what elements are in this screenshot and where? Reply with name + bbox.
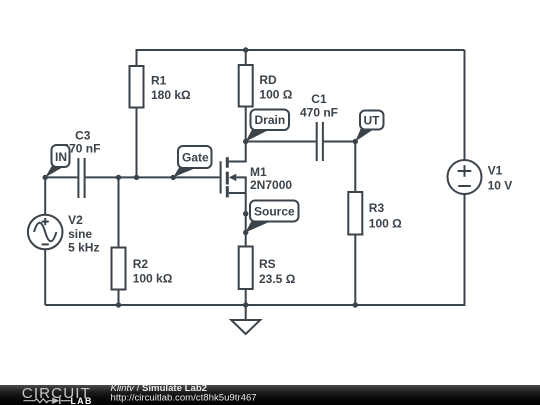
wire V1 bottom to ground rail [464,194,466,306]
svg-text:R1: R1 [151,73,167,87]
wire V1 branch top [464,50,466,160]
wire R3 bottom stub [354,235,356,306]
svg-text:RD: RD [259,73,277,87]
node IN flag [45,145,69,177]
wire M1 source down to RS [245,193,247,247]
node UT flag [355,111,383,142]
resistor RS [239,247,253,290]
svg-text:IN: IN [55,150,67,164]
wire R1 bottom to gate row [136,108,138,178]
svg-text:RS: RS [259,257,276,271]
svg-text:470 nF: 470 nF [300,105,338,119]
svg-text:http://circuitlab.com/ct8hk5u9: http://circuitlab.com/ct8hk5u9tr467 [111,392,257,403]
voltage source V2 [28,215,63,250]
svg-text:Drain: Drain [255,113,286,127]
junction R3 bottom rail [353,302,358,307]
capacitor C3 [78,158,84,198]
wire V2 top to IN node [44,177,46,214]
svg-text:C3: C3 [75,128,91,142]
svg-text:C1: C1 [311,92,327,106]
label C1 value [300,92,338,119]
wire C3 to gate [86,176,220,178]
wire IN node to C3 [45,176,77,178]
wire V2 bottom to rail [44,249,46,305]
junction Gate node [171,175,176,180]
node Source flag [245,201,298,233]
wire R3 top stub [354,142,356,193]
wire C1 to UT node [324,141,355,143]
junction top rail RD [243,47,248,52]
wire RD bottom to drain node [245,107,247,142]
resistor RD [239,65,253,107]
junction IN node [43,175,48,180]
svg-text:V1: V1 [488,164,503,178]
footer bar [0,385,540,405]
wire R1 top stub [136,49,138,66]
svg-text:180 kΩ: 180 kΩ [151,88,191,102]
svg-text:Gate: Gate [182,151,209,165]
junction M1 source pin [243,211,248,216]
label V1 value [488,164,513,193]
label R3 value [369,201,402,230]
resistor R1 [130,66,144,108]
svg-text:sine: sine [68,227,92,241]
junction Drain node [243,139,248,144]
junction R2 bottom rail [116,302,121,307]
wire RS bottom stub [245,289,247,305]
footer CircuitLab logo [22,385,93,405]
svg-text:10 V: 10 V [488,178,513,192]
resistor R2 [112,248,126,290]
wire drain node to C1 [246,141,316,143]
svg-text:V2: V2 [68,213,83,227]
junction R2 top [116,175,121,180]
node Drain flag [246,110,289,142]
label R2 value [133,257,173,285]
label RD value [259,73,292,101]
footer title text [111,383,257,404]
svg-text:100 kΩ: 100 kΩ [133,272,173,286]
wire R2 bottom stub [118,290,120,306]
label C3 value [62,128,100,155]
svg-text:R3: R3 [369,201,385,215]
ground [231,305,260,334]
label R1 value [151,73,191,101]
label RS value [259,257,296,286]
svg-text:R2: R2 [133,257,149,271]
svg-text:Source: Source [254,205,295,219]
wire RD top stub [245,50,247,65]
transistor M1 (NMOS 2N7000) [221,142,246,198]
voltage source V1 [448,160,482,194]
svg-text:LAB: LAB [71,396,93,405]
wire top rail [137,49,465,51]
label M1 value [250,165,292,192]
junction RS bottom rail [243,302,248,307]
capacitor C1 [317,122,323,161]
svg-text:5 kHz: 5 kHz [68,240,99,254]
svg-text:23.5 Ω: 23.5 Ω [259,272,296,286]
resistor R3 [348,192,362,235]
junction R1 bottom [134,175,139,180]
label V2 value [68,213,99,254]
svg-text:100 Ω: 100 Ω [259,88,292,102]
wire bottom rail [45,304,464,306]
svg-text:UT: UT [364,114,381,128]
node Gate flag [173,146,211,177]
svg-text:100 Ω: 100 Ω [369,216,402,230]
junction UT node [353,139,358,144]
junction Source flag node [243,230,248,235]
wire R2 top stub [118,177,120,247]
svg-text:2N7000: 2N7000 [250,178,292,192]
svg-text:M1: M1 [250,165,267,179]
